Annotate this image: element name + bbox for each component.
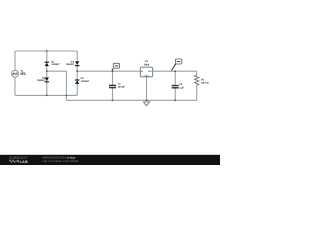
svg-text:OUT: OUT bbox=[148, 70, 152, 72]
svg-text:e5601013620135 / bridge: e5601013620135 / bridge bbox=[42, 157, 75, 160]
svg-text:100 µF: 100 µF bbox=[118, 86, 125, 89]
svg-text:1N4007: 1N4007 bbox=[51, 63, 59, 66]
svg-text:1N4007: 1N4007 bbox=[66, 63, 74, 66]
svg-text:CIRCUIT: CIRCUIT bbox=[10, 156, 28, 160]
svg-text:100 kΩ: 100 kΩ bbox=[201, 82, 209, 85]
svg-text:GND: GND bbox=[145, 75, 149, 77]
svg-text:IN: IN bbox=[141, 70, 143, 72]
svg-text:http://circuitlab.com/c79298l: http://circuitlab.com/c79298l bbox=[42, 160, 78, 163]
svg-text:1N4007: 1N4007 bbox=[37, 79, 45, 82]
svg-text:LAB: LAB bbox=[20, 160, 29, 164]
svg-text:U1: U1 bbox=[145, 60, 148, 63]
svg-text:C2: C2 bbox=[179, 83, 182, 86]
svg-text:R1: R1 bbox=[201, 78, 204, 81]
svg-text:C1: C1 bbox=[118, 82, 121, 85]
svg-text:60 Hz: 60 Hz bbox=[21, 73, 27, 76]
svg-text:7805: 7805 bbox=[144, 63, 150, 66]
svg-text:1 µF: 1 µF bbox=[179, 86, 184, 89]
svg-text:1N4007: 1N4007 bbox=[81, 80, 89, 83]
